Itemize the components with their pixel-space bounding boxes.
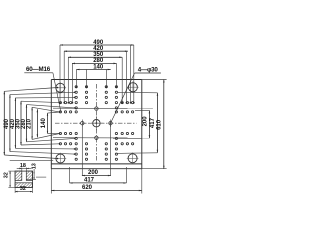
svg-text:200: 200 <box>88 170 99 176</box>
svg-text:60—M16: 60—M16 <box>26 66 51 73</box>
svg-text:32: 32 <box>4 172 10 178</box>
svg-text:4—φ30: 4—φ30 <box>138 66 159 73</box>
svg-text:280: 280 <box>93 58 104 64</box>
svg-text:620: 620 <box>82 185 93 191</box>
svg-text:140: 140 <box>93 64 104 70</box>
svg-text:420: 420 <box>93 46 104 52</box>
svg-text:13: 13 <box>32 163 38 169</box>
svg-text:200: 200 <box>143 116 149 127</box>
svg-text:350: 350 <box>93 52 104 58</box>
svg-text:18: 18 <box>20 163 26 169</box>
svg-text:610: 610 <box>156 119 162 130</box>
svg-text:417: 417 <box>150 117 156 128</box>
svg-text:210: 210 <box>26 118 32 129</box>
svg-text:490: 490 <box>93 40 104 46</box>
svg-text:417: 417 <box>84 177 95 183</box>
svg-text:140: 140 <box>41 118 47 129</box>
svg-text:32: 32 <box>20 186 26 192</box>
